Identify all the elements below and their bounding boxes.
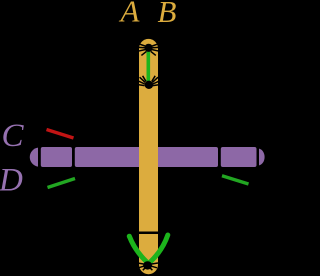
green V at bottom: right arm	[150, 235, 167, 262]
svg-text:B: B	[158, 0, 177, 29]
svg-text:C: C	[2, 118, 25, 154]
green tick near D	[48, 179, 76, 188]
green tick right of B (below rod)	[222, 176, 249, 184]
horizontal rod CD: left end cap	[30, 148, 38, 167]
red tick near C	[47, 130, 74, 139]
green line on rod (between the two ticks)	[147, 50, 151, 84]
horizontal rod CD: long middle segment	[75, 147, 218, 167]
tick/spider at A (top), body + legs	[136, 43, 160, 55]
spider at bottom V vertex, legs + body	[137, 263, 158, 270]
vertical rod AB: main piece with dome top	[139, 39, 158, 232]
horizontal rod CD: segment 1	[41, 147, 72, 167]
svg-text:A: A	[119, 0, 141, 29]
tick/spider at lower end of green line, body + legs	[136, 76, 161, 86]
green V at bottom: left arm	[129, 236, 146, 262]
horizontal rod CD: right end cap	[259, 149, 265, 166]
svg-text:D: D	[0, 162, 23, 198]
vertical rod AB: bottom piece with rounded end	[139, 234, 158, 274]
horizontal rod CD: segment 3	[221, 147, 257, 167]
